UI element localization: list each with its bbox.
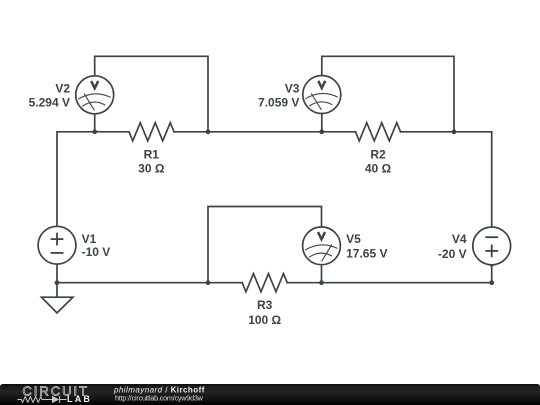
wire: V4 bottom lead to bottom rail xyxy=(491,265,493,283)
svg-text:-20 V: -20 V xyxy=(438,247,467,261)
svg-text:V5: V5 xyxy=(346,232,361,246)
wire: top rail node C segment (R2 right to corner, down to V4 top) xyxy=(401,132,492,227)
wire: V3 sense loop (top of V3 up, right, down to node C) xyxy=(322,56,454,132)
svg-text:100 Ω: 100 Ω xyxy=(248,313,281,327)
junction: node B at V3 bottom xyxy=(319,129,324,134)
junction: node E (R3 right / V5 bottom) xyxy=(319,280,324,285)
svg-text:V3: V3 xyxy=(285,82,300,96)
svg-text:30 Ω: 30 Ω xyxy=(138,162,165,176)
wire: V1 bottom lead to ground rail xyxy=(56,264,58,283)
voltage source V1 xyxy=(38,226,76,264)
junction: node A (V2- / R1 left / V1+) xyxy=(92,129,97,134)
terminal dot: V4 bottom pin xyxy=(489,262,494,267)
svg-text:R1: R1 xyxy=(144,148,160,162)
voltmeter V3 xyxy=(303,76,341,114)
junction: node D (ground rail / V5 loop / R3 left) xyxy=(206,280,211,285)
svg-text:5.294 V: 5.294 V xyxy=(29,96,70,110)
junction: V4 bottom on ground rail xyxy=(489,280,494,285)
svg-text:V4: V4 xyxy=(452,232,467,246)
wire: top rail node B segment (R1 right to R2 left) xyxy=(174,131,356,133)
junction: node C (R2 right / V3+ loop) xyxy=(452,129,457,134)
voltmeter V2 xyxy=(76,76,114,114)
svg-text:17.65 V: 17.65 V xyxy=(346,246,387,260)
wire: V2 sense loop (top of V2 up, right, down to node B) xyxy=(95,56,208,132)
resistor R2 xyxy=(356,123,401,141)
svg-text:40 Ω: 40 Ω xyxy=(365,162,392,176)
svg-text:7.059 V: 7.059 V xyxy=(258,96,299,110)
wire: bottom ground rail (V1 to R3 left) xyxy=(57,282,242,284)
svg-text:V2: V2 xyxy=(55,82,70,96)
logo: resistor-diode glyph xyxy=(18,396,67,403)
wire: top rail node A segment (V1 top corner to R1 left) xyxy=(57,131,129,133)
voltmeter V5 xyxy=(303,227,341,265)
svg-text:-10 V: -10 V xyxy=(82,245,111,259)
ground symbol xyxy=(42,283,73,313)
svg-text:LAB: LAB xyxy=(67,394,92,404)
svg-text:R3: R3 xyxy=(257,298,273,312)
svg-text:R2: R2 xyxy=(370,148,386,162)
svg-text:http://circuitlab.com/cyw9d3w: http://circuitlab.com/cyw9d3w xyxy=(115,393,204,402)
wire: V5 sense loop (node D up, right, down to V5 top) xyxy=(208,207,322,283)
junction: ground node at V1 bottom xyxy=(55,280,60,285)
voltage source V4 xyxy=(473,227,511,265)
wire: bottom rail (R3 right to V4 bottom) xyxy=(287,282,492,284)
wire: V5 bottom lead to node E xyxy=(321,265,323,283)
resistor R1 xyxy=(129,123,174,141)
resistor R3 xyxy=(242,274,287,292)
footer bar xyxy=(0,384,540,405)
wire: V1 top lead (node A down to V1) xyxy=(56,132,58,227)
junction: node B (R1 right / V2+ loop / V3-) xyxy=(206,129,211,134)
wire: V2 bottom lead to node A xyxy=(94,114,96,132)
wire: V3 bottom lead to node B xyxy=(321,114,323,132)
